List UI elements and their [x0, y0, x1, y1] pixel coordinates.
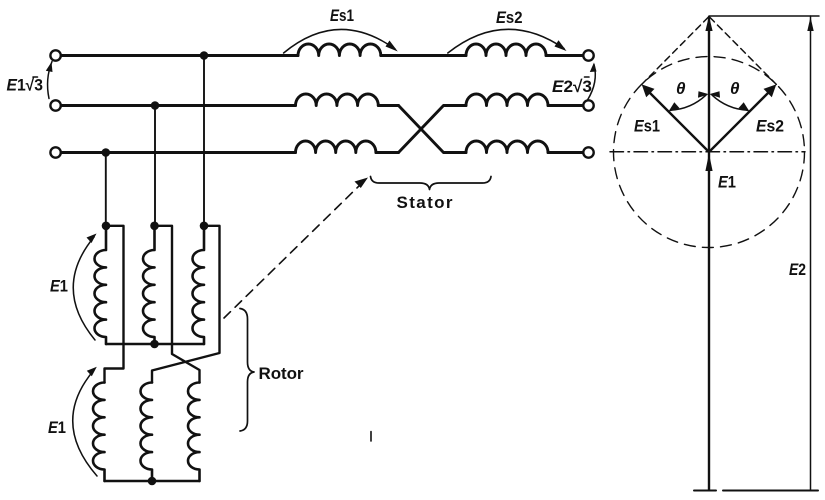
wire line2 left segment [61, 104, 296, 107]
phasor: baseline tick under E1 [694, 490, 716, 492]
svg-text:Rotor: Rotor [259, 364, 304, 383]
node J2 (junction on line2) [151, 101, 160, 110]
phasor: E2 vertical line [810, 16, 812, 491]
terminal S3 (right line 3) [583, 147, 593, 157]
wire bypass 3 (R3 to lower coil 2) [152, 226, 220, 383]
svg-text:E1: E1 [718, 173, 736, 192]
phasor: dashed chord right [709, 17, 776, 85]
inductor stator L3b [466, 141, 548, 153]
arrow Es1 (arc over L1a) [284, 29, 395, 53]
wire dropper from J2 [154, 106, 156, 226]
inductor stator L3a [296, 141, 376, 153]
node R3 (rotor top junction 3) [200, 222, 209, 231]
wire dropper from J3 [105, 153, 107, 226]
stray mark [370, 432, 372, 442]
phasor: E1 vector vertical line [708, 17, 710, 490]
inductor rotor U1 (upper coil 1) [95, 226, 107, 344]
phasor: E2 top arrowhead [807, 17, 813, 31]
node N1 (upper star point) [150, 340, 159, 349]
inductor stator L1a (Es1 winding) [298, 44, 381, 56]
brace rotor [240, 309, 254, 432]
phasor: theta arc right [712, 95, 748, 110]
svg-text:E1: E1 [50, 277, 68, 296]
svg-text:E1√3: E1√3 [7, 76, 44, 95]
terminal S2 (right line 2) [583, 100, 593, 110]
wire line1 left segment [61, 54, 298, 57]
wire crossover diagonal (line3 left to line2 right) [399, 106, 467, 153]
arrow dashed (rotor to stator) [224, 184, 361, 318]
brace stator [371, 177, 492, 190]
inductor stator L1b (Es2 winding) [466, 44, 546, 56]
svg-text:Es1: Es1 [634, 117, 660, 136]
terminal P1 (left line 1) [50, 50, 60, 60]
wire lower star bus [105, 480, 200, 482]
phasor: Es1 vector [646, 89, 709, 152]
wire bypass 1 (R1 to lower coil 1) [105, 226, 124, 383]
inductor rotor U2 (upper coil 2) [143, 226, 155, 344]
wire line1 right segment [546, 54, 583, 57]
phasor: E1 arrowhead at centre [705, 154, 712, 172]
arrow E1sqrt3 (arc between P1 and P2) [48, 62, 52, 99]
phasor: centerline dash-dot [610, 151, 805, 153]
svg-text:E2√3: E2√3 [552, 77, 592, 96]
node J3 (junction on line3) [102, 148, 111, 157]
svg-text:Es2: Es2 [756, 117, 784, 136]
inductor rotor U3 (upper coil 3) [193, 226, 205, 344]
terminal P2 (left line 2) [50, 100, 60, 110]
svg-text:E2: E2 [789, 260, 806, 279]
arrow E1 lower (arc beside D1) [73, 370, 97, 476]
phasor: baseline to E2 [723, 490, 818, 492]
svg-text:Es2: Es2 [496, 8, 523, 27]
phasor: Es2 vector [709, 89, 772, 152]
node N2 (lower star point) [148, 477, 157, 486]
terminal P3 (left line 3) [50, 147, 60, 157]
terminal S1 (right line 1) [583, 50, 593, 60]
node J1 (junction on line1) [200, 51, 209, 60]
wire line1 middle segment [381, 54, 466, 57]
svg-text:E1: E1 [48, 418, 66, 437]
wire line3 left segment [61, 151, 296, 154]
svg-text:θ: θ [730, 79, 740, 98]
svg-text:Stator: Stator [397, 193, 453, 212]
svg-text:θ: θ [676, 79, 686, 98]
phasor: apex arrowhead [705, 16, 712, 31]
inductor stator L2a [296, 94, 379, 106]
wire line2 to crossover [378, 104, 398, 107]
wire line2 right segment [548, 104, 583, 107]
phasor: theta arc left [670, 95, 706, 110]
arrow E2sqrt3 (arc between S1 and S2) [588, 65, 596, 101]
inductor rotor D1 (lower coil 1) [93, 383, 104, 482]
wire upper star bus [106, 343, 204, 345]
phasor: dashed circle [614, 57, 805, 248]
wire dropper from J1 [203, 56, 205, 226]
wire crossover diagonal (line2 left to line3 right) [399, 106, 467, 153]
phasor: dashed chord left [642, 17, 709, 85]
node R2 (rotor top junction 2) [150, 222, 159, 231]
wire bypass 2 (R2 to lower coil 3) [155, 226, 200, 383]
node R1 (rotor top junction 1) [102, 222, 111, 231]
phasor: top line to E2 [709, 15, 819, 17]
svg-text:Es1: Es1 [330, 6, 354, 25]
inductor rotor D3 (lower coil 3) [188, 383, 200, 482]
arrow E1 upper (arc beside U1) [73, 237, 95, 340]
inductor rotor D2 (lower coil 2) [141, 383, 153, 482]
arrow Es2 (arc over L1b) [448, 29, 564, 53]
inductor stator L2b [466, 94, 548, 106]
wire line3 to crossover [376, 151, 399, 154]
wire line3 right segment [548, 151, 583, 154]
